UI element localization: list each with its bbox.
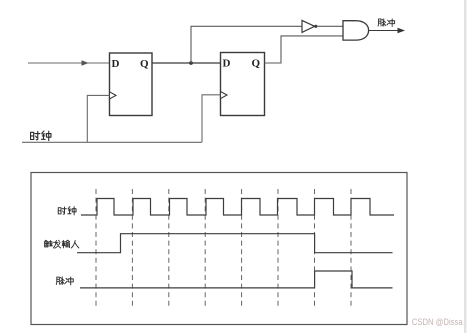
label: 脉冲 (pulse) output <box>378 19 395 27</box>
dashed timing gridlines <box>96 189 351 309</box>
AND gate U4 <box>343 21 369 40</box>
label: 时钟 timing row <box>58 207 76 215</box>
D flip-flop U2 <box>221 53 265 116</box>
wire: Q of U2 up to AND gate bottom input <box>265 36 344 63</box>
svg-text:CSDN @Dissa: CSDN @Dissa <box>412 317 464 327</box>
timing diagram frame <box>31 173 407 325</box>
svg-text:Q: Q <box>252 58 261 70</box>
wire: input signal into D of U1 with mid-line arrowhead <box>28 60 110 66</box>
waveform: trigger input <box>77 234 393 253</box>
label: 时钟 (clock) circuit <box>31 131 51 141</box>
wire: AND gate output with arrowhead <box>369 28 405 33</box>
label: 触发输入 timing row <box>45 240 79 248</box>
node: junction on Q1 wire <box>189 61 193 65</box>
wire: Q of U1 to D of U2 <box>152 62 221 64</box>
svg-text:Q: Q <box>140 58 149 70</box>
waveform: clock <box>81 199 394 216</box>
wire: junction up and over to inverter input <box>191 26 302 63</box>
label: 脉冲 timing row <box>56 277 73 285</box>
svg-text:D: D <box>112 58 120 70</box>
D flip-flop U1 <box>110 53 153 116</box>
wire: inverter output to AND gate top input <box>317 25 343 27</box>
page edge line <box>464 0 466 333</box>
wire: clock line with risers to U1 and U2 clock pins <box>22 95 221 143</box>
waveform: pulse <box>80 271 393 288</box>
inverter U3 <box>302 20 317 32</box>
svg-text:D: D <box>223 58 231 70</box>
